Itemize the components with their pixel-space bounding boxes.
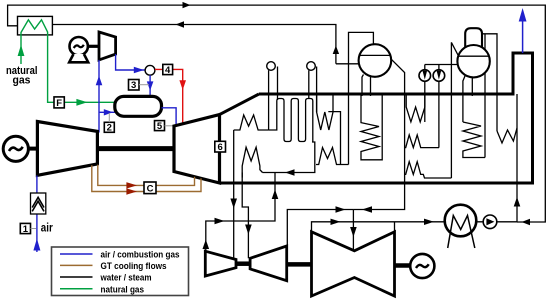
- lollipop2 pipes: [309, 67, 317, 113]
- stack exhaust arrow up: [519, 8, 527, 22]
- blue line node down into combustor top: [149, 75, 151, 96]
- svg-text:air: air: [41, 223, 53, 235]
- svg-text:gas: gas: [13, 75, 31, 87]
- wire second rail (hot water from drum to fuel preheater): [52, 25, 336, 64]
- cold reheat line from HP exhaust: [206, 173, 275, 251]
- HP steam lead down from superheater: [233, 130, 235, 183]
- HRSG duct top wall: [220, 53, 533, 183]
- IP superheater M coil mid: [405, 135, 439, 148]
- legend line air: [60, 253, 93, 255]
- svg-text:water / steam: water / steam: [100, 273, 152, 284]
- svg-text:natural gas: natural gas: [101, 285, 145, 296]
- blue arrow down into combustor: [147, 81, 154, 90]
- heat exchanger fuel preheater box: [18, 16, 53, 35]
- combustor exit line to turbine with node 5: [162, 108, 177, 126]
- red line node to 4 and down to turbine inlet: [155, 69, 183, 124]
- air arrow up on riser: [96, 76, 103, 85]
- node 6 box on turbine exit: [215, 141, 226, 152]
- reheater coil lower M: [242, 147, 262, 177]
- air inlet line: [36, 176, 38, 253]
- air arrow into combustor: [104, 109, 113, 115]
- drum1 lollipop riser pipe: [268, 70, 270, 130]
- node C box: [144, 182, 156, 194]
- combustor: [115, 96, 162, 116]
- LP steam supply from duct: [353, 183, 404, 210]
- node 1 box: [20, 223, 30, 233]
- lollipop circle 1: [267, 62, 276, 71]
- drum2 downcomer: [463, 75, 466, 122]
- turbine HP: [205, 251, 236, 276]
- natural gas arrow up to preheater: [18, 45, 25, 56]
- drum1 circle: [359, 44, 392, 77]
- economizer serpentine: [269, 99, 313, 143]
- drum2 water level: [458, 55, 489, 57]
- svg-text:4: 4: [165, 65, 171, 76]
- condensate feed arrow up: [514, 197, 521, 207]
- shaft HP-IP: [236, 261, 251, 266]
- generator G2 (steam): [410, 254, 434, 278]
- feed pumps header: [425, 64, 458, 66]
- node 2 box: [104, 122, 114, 132]
- HP evaporator heating element 1: [361, 94, 382, 160]
- cold reheat arrow up at HP: [203, 240, 210, 250]
- wire arrow left on second rail: [176, 21, 185, 27]
- red arrow down: [179, 80, 186, 90]
- GT cooling arrow A: [126, 188, 137, 194]
- drum1 water level: [359, 54, 390, 56]
- wire arrow right on top rail: [183, 2, 191, 8]
- drum1 steam outlet slant: [391, 59, 404, 183]
- HRSG diffuser top: [220, 94, 260, 115]
- svg-text:air / combustion gas: air / combustion gas: [101, 250, 180, 261]
- connector 1: [31, 228, 37, 230]
- legend line gas: [60, 288, 93, 290]
- IP evaporator M coil: [316, 148, 349, 165]
- svg-text:F: F: [56, 98, 62, 109]
- legend box: [52, 247, 189, 296]
- air inlet arrow up: [33, 239, 40, 251]
- svg-text:6: 6: [217, 142, 222, 153]
- cold reheat arrow right: [215, 218, 225, 224]
- connector 5: [165, 125, 176, 127]
- HP evaporator heating element 2: [463, 122, 485, 158]
- node 5 box: [155, 121, 165, 131]
- GT cooling arrow B: [126, 182, 137, 188]
- compressor GT: [37, 122, 97, 176]
- shaft LP-generator: [395, 263, 412, 268]
- node F box: [54, 97, 64, 108]
- generator G1 (gas turbine): [3, 136, 28, 161]
- wire top return rail (fuel preheater water out, across top): [8, 5, 546, 222]
- HP steam admission line to HP turbine: [233, 183, 235, 259]
- shaft IP-LP: [287, 262, 312, 267]
- natural gas line F to combustor: [64, 101, 115, 103]
- economizer W coil right: [497, 128, 517, 143]
- shaft compressor to turbine: [97, 146, 174, 151]
- svg-text:1: 1: [23, 224, 29, 235]
- cold reheat arrow up into duct: [272, 190, 279, 200]
- wire drum1 left tap: [336, 63, 360, 65]
- air arrow into mixing node: [134, 67, 144, 73]
- coil group connector: [328, 112, 340, 165]
- air filter chevrons: [32, 197, 44, 211]
- node 4 box: [163, 64, 173, 74]
- connector 2: [108, 113, 110, 122]
- wire arrow up on drum tap riser: [333, 46, 339, 55]
- svg-text:2: 2: [107, 123, 112, 134]
- svg-text:GT cooling flows: GT cooling flows: [101, 261, 167, 272]
- condensate feed riser into HRSG: [516, 94, 518, 222]
- motor M1 fuel compressor drive circle: [70, 37, 88, 55]
- motor M1 stand: [69, 54, 88, 62]
- lollipop circle 2: [307, 62, 316, 71]
- natural gas arrow right after F: [76, 99, 87, 106]
- air branch into combustor left: [99, 111, 115, 113]
- dome steam rail: [482, 34, 497, 131]
- arrow left into reheater: [285, 169, 295, 175]
- turbine LP double flow: [312, 232, 395, 296]
- LP admission arrow down: [350, 227, 357, 237]
- drum1 riser: [349, 32, 374, 164]
- drum2 riser: [451, 42, 458, 178]
- air filter box: [31, 193, 46, 214]
- fuel compressor discharge to mixing node: [116, 54, 145, 70]
- connector 3 to line: [139, 84, 149, 86]
- node 3 box: [129, 80, 140, 91]
- turbine IP: [250, 246, 287, 281]
- hot reheat line down to IP turbine: [242, 173, 248, 259]
- drum2 steam dome: [465, 28, 482, 47]
- exhaust arrow right 1: [331, 219, 341, 225]
- svg-text:3: 3: [131, 80, 136, 91]
- condenser circle with cooling M: [445, 205, 477, 237]
- legend line water: [60, 276, 93, 278]
- condensate pump: [476, 221, 517, 223]
- LP exhaust right riser: [394, 222, 396, 232]
- drum2 circle: [457, 45, 489, 77]
- GT cooling flow line B inner through C: [98, 165, 195, 186]
- turbine GT: [174, 115, 220, 183]
- reheat header line: [263, 142, 315, 173]
- feed pump P2: [438, 65, 440, 148]
- feed pump P1: [424, 65, 426, 123]
- GT cooling flow line A outer: [92, 165, 201, 191]
- hot reheat arrow down: [245, 225, 252, 235]
- LP superheater M coil bottom: [405, 162, 452, 178]
- crossover arrow right: [336, 206, 346, 212]
- stack exhaust blue line: [522, 22, 524, 54]
- superheater sock coil 2: [406, 94, 425, 122]
- superheater coil upper M: [234, 115, 269, 130]
- HP superheater feed line: [484, 34, 486, 158]
- legend line cooling: [60, 264, 93, 266]
- exhaust arrow right 2: [424, 219, 434, 225]
- air line riser to fuel compressor inlet: [98, 60, 100, 133]
- lollipop1 second pipe: [277, 67, 279, 101]
- shaft motor to fuel compressor: [88, 45, 100, 48]
- wire arrow left near pump junction: [522, 219, 531, 225]
- IP exhaust crossover up: [287, 210, 353, 247]
- svg-text:C: C: [147, 184, 154, 195]
- LP exhaust header to condenser: [312, 222, 445, 232]
- fuel gas compressor: [99, 32, 116, 60]
- natural gas supply line with zigzag through preheater: [21, 20, 54, 103]
- svg-text:5: 5: [157, 121, 163, 132]
- evaporator sock coil 1: [317, 94, 333, 130]
- LP admission down into LP turbine: [352, 210, 354, 250]
- mixing node circle: [145, 65, 155, 75]
- drum2 second downpipe: [471, 77, 473, 96]
- drum1 downcomers: [362, 75, 371, 97]
- HP admission arrow down: [230, 199, 237, 209]
- shaft generator to compressor: [28, 147, 38, 151]
- LP supply arrow left: [362, 206, 372, 212]
